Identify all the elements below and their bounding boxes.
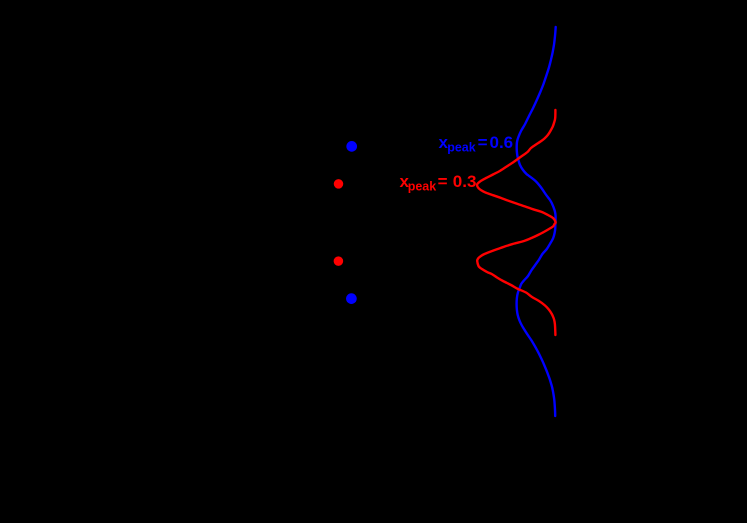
red data point 2 (lower crossing) (334, 256, 344, 266)
blue light curve (x_peak = 0.6 profile) (517, 27, 556, 416)
blue data point 2 (lower caustic crossing) (346, 293, 357, 304)
red data point 1 (upper crossing) (334, 179, 344, 189)
red light curve (x_peak = 0.3 profile) (477, 110, 556, 335)
blue data point 1 (upper caustic crossing) (346, 141, 357, 152)
